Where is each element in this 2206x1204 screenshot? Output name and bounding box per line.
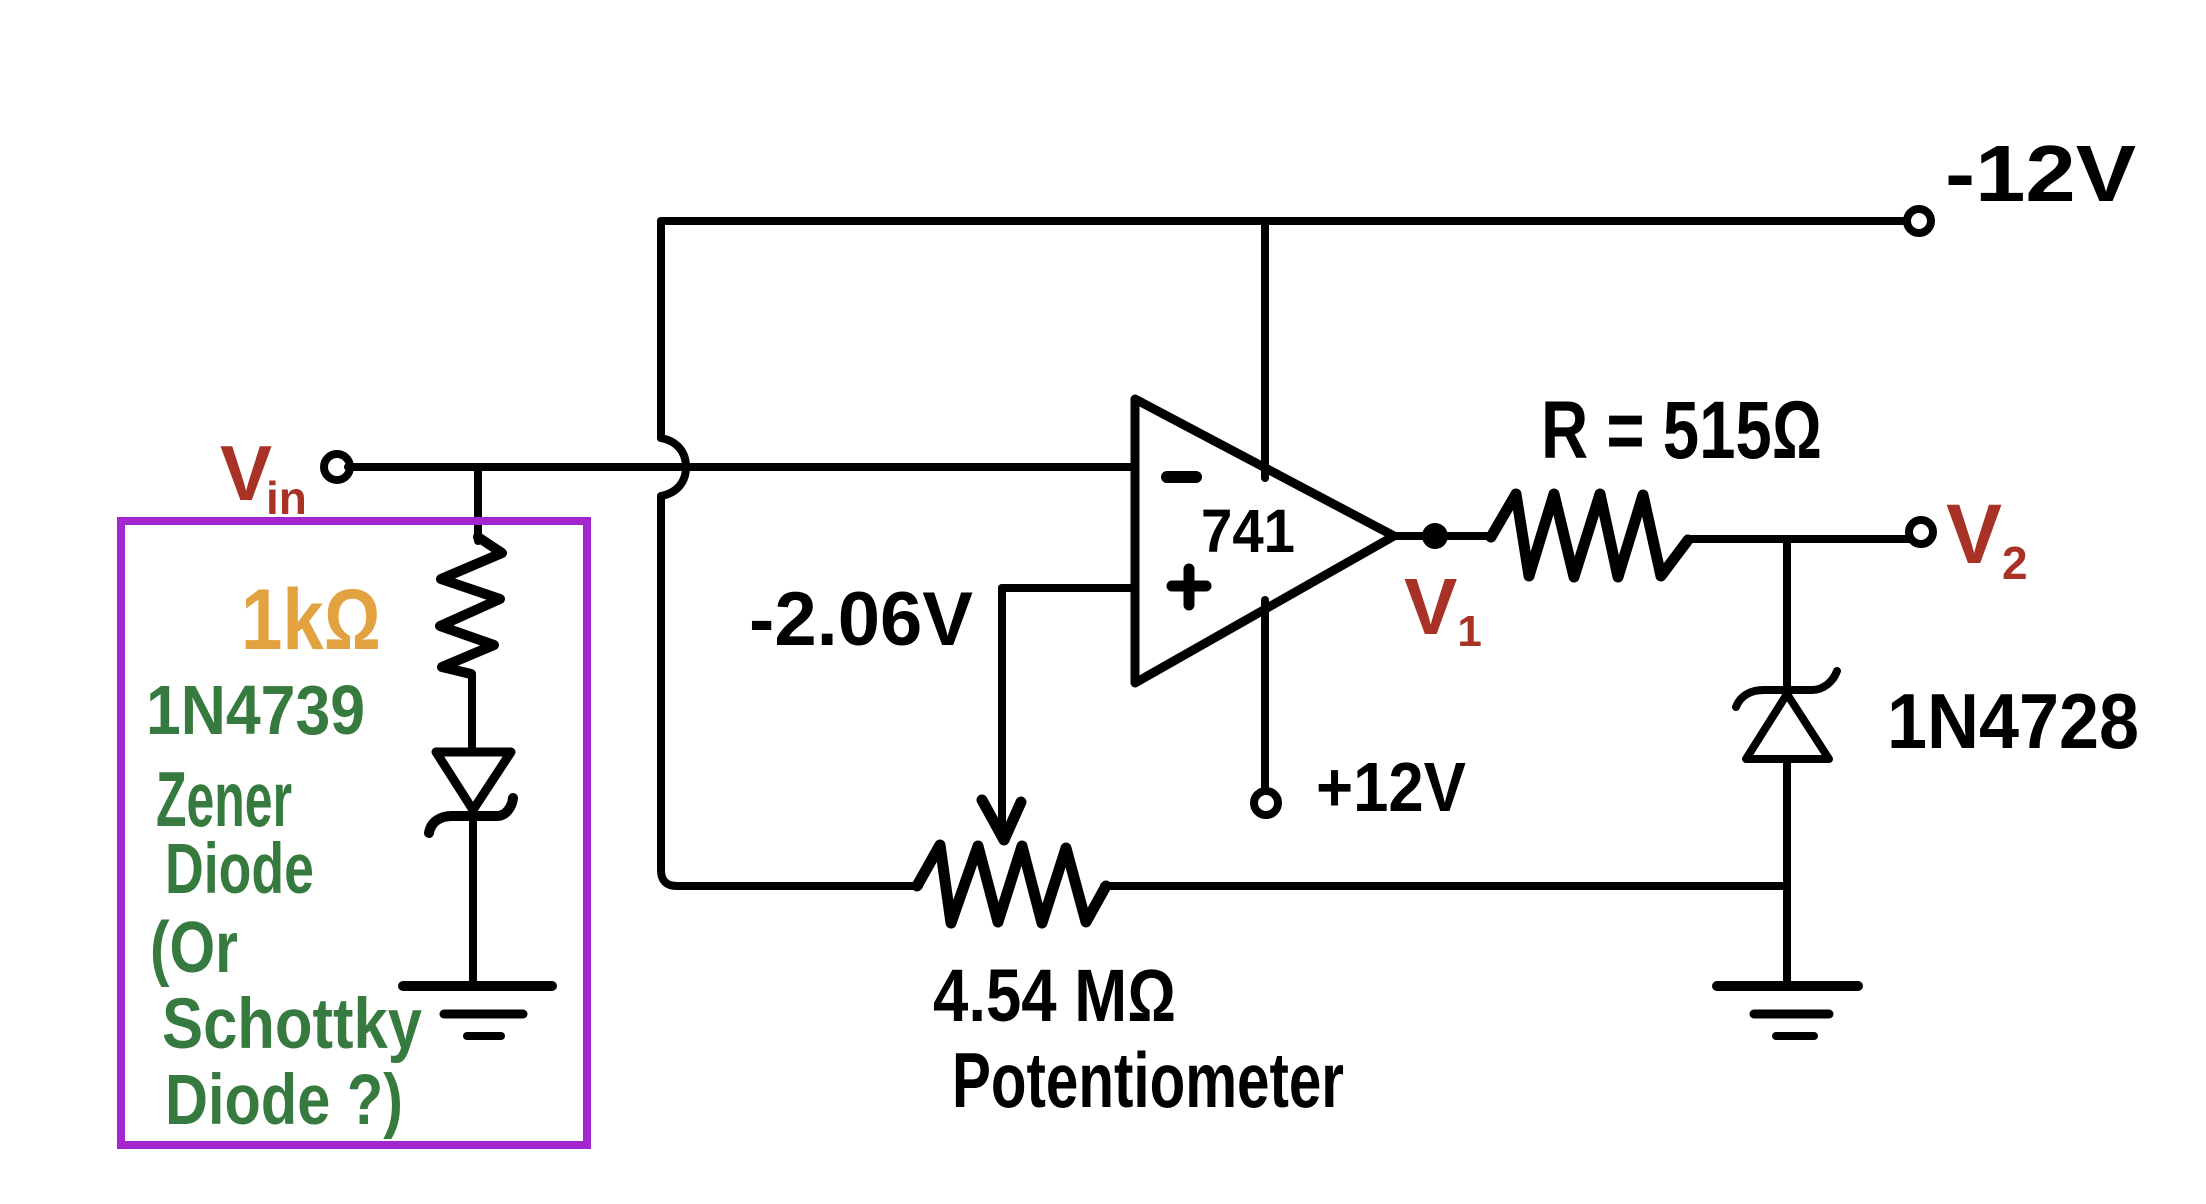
ground right bbox=[1717, 986, 1858, 1036]
wire D1 to ground bbox=[469, 816, 477, 986]
wire left vertical lower bbox=[661, 496, 677, 886]
wire bottom rail right bbox=[1104, 882, 1787, 890]
svg-text:1kΩ: 1kΩ bbox=[241, 572, 381, 668]
wire R1 to D1 bbox=[468, 674, 476, 752]
resistor 1k ohm bbox=[440, 537, 502, 674]
svg-text:Diode ?): Diode ?) bbox=[165, 1061, 403, 1140]
wire noninverting input bbox=[1002, 584, 1135, 592]
wire +12V vertical upper bbox=[1261, 221, 1269, 478]
wire junction drop to R1 bbox=[474, 467, 482, 541]
wire junction drop to D2 bbox=[1783, 539, 1791, 688]
svg-text:+12V: +12V bbox=[1316, 748, 1466, 826]
svg-text:-12V: -12V bbox=[1945, 129, 2136, 218]
pin plus of U1 bbox=[1172, 569, 1206, 605]
ground left bbox=[403, 986, 552, 1036]
wire +12V vertical lower bbox=[1261, 600, 1269, 791]
wire bottom rail left bbox=[677, 882, 919, 890]
svg-text:Potentiometer: Potentiometer bbox=[952, 1036, 1344, 1124]
pin minus of U1 bbox=[1167, 471, 1196, 483]
svg-text:Schottky: Schottky bbox=[162, 985, 422, 1064]
potentiometer RP 4.54M bbox=[917, 845, 1106, 923]
node V2 terminal bbox=[1909, 520, 1933, 544]
svg-text:Diode: Diode bbox=[165, 830, 314, 909]
wire R to V2 terminal bbox=[1688, 535, 1909, 543]
wire -12V rail top bbox=[661, 217, 1908, 225]
wiper arrowhead bbox=[982, 800, 1021, 840]
svg-text:1N4739: 1N4739 bbox=[146, 671, 365, 749]
node V1 junction dot bbox=[1422, 523, 1448, 549]
svg-text:741: 741 bbox=[1201, 497, 1295, 565]
wire wiper arm bbox=[998, 588, 1006, 831]
svg-text:4.54 MΩ: 4.54 MΩ bbox=[933, 954, 1176, 1037]
node Vin terminal bbox=[324, 454, 350, 480]
node -12V terminal bbox=[1907, 209, 1931, 233]
diode D2 zener 1N4728 bbox=[1736, 671, 1837, 707]
wire hop over Vin wire bbox=[661, 438, 686, 496]
wire left vertical upper bbox=[657, 221, 665, 438]
svg-text:-2.06V: -2.06V bbox=[749, 577, 973, 662]
op-amp U1 741 bbox=[1135, 399, 1394, 683]
wire Vin to inverting input bbox=[348, 463, 1135, 471]
svg-text:(Or: (Or bbox=[150, 908, 238, 988]
resistor R 515 ohm bbox=[1491, 494, 1688, 577]
wire D2 to ground bbox=[1783, 759, 1791, 986]
annotation box purple bbox=[121, 521, 587, 1145]
wire U1 output bbox=[1394, 532, 1491, 540]
node +12V terminal bbox=[1254, 791, 1278, 815]
svg-text:1N4728: 1N4728 bbox=[1887, 677, 2139, 765]
diode D1 zener 1N4739 bbox=[436, 752, 511, 810]
svg-text:R = 515Ω: R = 515Ω bbox=[1541, 385, 1822, 476]
